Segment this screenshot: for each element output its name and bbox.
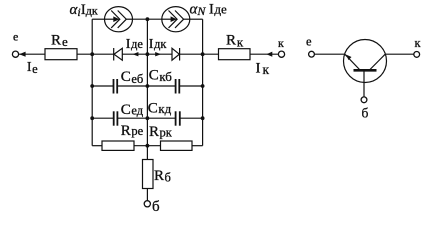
node left rail cap row1	[90, 84, 94, 88]
svg-text:Iдк: Iдк	[149, 37, 168, 52]
node left rail main row	[90, 52, 94, 56]
svg-text:Rрк: Rрк	[149, 124, 173, 140]
capacitor Ckb	[176, 79, 180, 94]
arrow I_e	[19, 52, 25, 57]
wire transistor collector lead	[385, 53, 414, 55]
diode emitter (pointing left)	[114, 48, 123, 61]
svg-text:б: б	[362, 105, 369, 120]
svg-text:к: к	[278, 36, 284, 50]
wire cap row2 left	[92, 117, 114, 119]
terminal e of transistor	[309, 51, 315, 57]
wire Rpe to center	[134, 145, 161, 147]
svg-text:е: е	[306, 35, 312, 49]
wire Re to left rail	[77, 53, 114, 55]
wire right rail	[202, 19, 204, 146]
svg-text:Скд: Скд	[148, 101, 172, 117]
node center cap row1	[146, 84, 150, 88]
wire cap row1 mid	[117, 85, 175, 87]
wire top rail middle segment	[133, 18, 162, 20]
resistor Re	[45, 49, 77, 60]
wire cap row2 right	[180, 117, 203, 119]
transistor collector diagonal	[370, 54, 386, 70]
terminal k	[278, 51, 284, 57]
node right rail main row	[201, 52, 205, 56]
wire transistor base lead	[363, 70, 365, 97]
svg-text:Себ: Себ	[121, 69, 143, 86]
svg-text:Rк: Rк	[226, 33, 244, 50]
svg-text:Iк: Iк	[256, 61, 270, 77]
terminal e	[12, 51, 18, 57]
resistor Rpk	[161, 141, 193, 150]
svg-text:е: е	[13, 30, 18, 44]
terminal k of transistor	[414, 52, 420, 58]
wire cap row1 left	[92, 85, 113, 87]
resistor Rk	[219, 49, 251, 60]
node top center	[146, 17, 150, 21]
wire left rail	[91, 19, 93, 146]
wire Rb to terminal b	[146, 189, 148, 201]
svg-text:Скб: Скб	[149, 67, 173, 84]
svg-text:Сед: Сед	[121, 102, 144, 118]
terminal b	[144, 201, 150, 207]
svg-text:Iе: Iе	[27, 60, 38, 76]
svg-text:Iде: Iде	[126, 37, 144, 52]
svg-text:Rе: Rе	[51, 32, 68, 49]
svg-text:б: б	[152, 199, 160, 215]
wire center rail	[146, 19, 148, 159]
wire Rpk to right rail	[192, 145, 203, 147]
wire bottom row left	[92, 145, 102, 147]
wire top rail left segment	[92, 18, 104, 20]
wire e to Re	[19, 53, 45, 55]
wire diode to center	[122, 53, 147, 55]
transistor body circle	[344, 40, 387, 83]
arrow I_de on wire	[133, 52, 139, 56]
svg-text:Rб: Rб	[154, 168, 171, 185]
wire right diode to right rail	[180, 53, 219, 55]
capacitor Ckd	[176, 111, 180, 125]
node left rail cap row2	[90, 116, 94, 120]
wire cap row1 right	[179, 85, 202, 87]
current source alpha_i I_dk	[105, 7, 133, 32]
wire top rail right segment	[190, 18, 203, 20]
svg-text:αNIде: αNIде	[190, 1, 228, 18]
capacitor Ced	[114, 111, 118, 125]
resistor Rpe	[102, 141, 134, 150]
transistor base bar	[354, 69, 377, 72]
node right rail cap row1	[201, 84, 205, 88]
wire Rk to terminal k	[250, 53, 278, 55]
node center bottom row	[146, 144, 150, 148]
wire cap row2 mid	[117, 117, 175, 119]
current source alpha_N I_de	[162, 7, 190, 32]
svg-text:к: к	[415, 36, 422, 50]
terminal b of transistor	[361, 97, 367, 103]
wire transistor emitter lead	[314, 53, 344, 55]
transistor emitter diagonal with arrow	[345, 54, 360, 70]
arrow I_k	[266, 52, 272, 57]
node center cap row2	[146, 116, 150, 120]
diode collector (pointing right)	[172, 48, 180, 61]
resistor Rb	[143, 160, 154, 189]
arrow I_dk on wire	[155, 52, 161, 56]
node center main row	[146, 52, 150, 56]
svg-text:Rре: Rре	[121, 123, 144, 139]
capacitor Ceb	[114, 79, 118, 94]
wire center to right diode	[147, 53, 172, 55]
node right rail cap row2	[201, 116, 205, 120]
svg-text:αiIдк: αiIдк	[70, 2, 98, 19]
